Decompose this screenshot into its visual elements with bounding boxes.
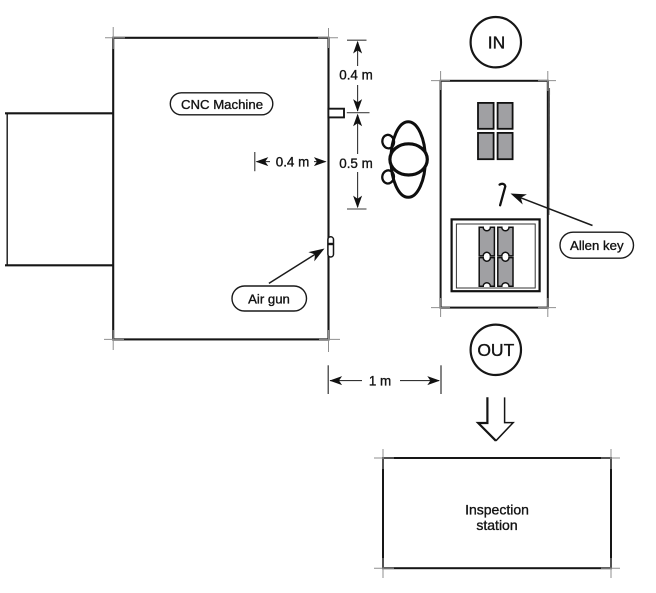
svg-text:1 m: 1 m bbox=[369, 373, 391, 388]
svg-text:station: station bbox=[476, 517, 517, 533]
CNC machine body bbox=[113, 38, 328, 340]
Air gun label bbox=[232, 286, 307, 311]
dimension 0.5 m vertical bbox=[339, 113, 373, 209]
operator (person top view) bbox=[381, 122, 427, 198]
corner ticks CNC bbox=[104, 27, 340, 352]
svg-text:0.4 m: 0.4 m bbox=[339, 68, 373, 83]
machined parts: 4 gray with notches bbox=[479, 227, 513, 286]
left fixture rectangle bbox=[5, 113, 113, 265]
door handle bbox=[328, 109, 344, 118]
svg-text:IN: IN bbox=[488, 32, 506, 52]
svg-text:Air gun: Air gun bbox=[248, 291, 290, 306]
OUT circle bbox=[471, 325, 521, 375]
flow arrow (open block arrow down) bbox=[478, 397, 513, 441]
IN circle bbox=[471, 17, 521, 67]
corner ticks table bbox=[431, 71, 556, 317]
svg-text:Allen key: Allen key bbox=[570, 238, 624, 253]
corner ticks inspection bbox=[374, 449, 620, 578]
inspection station text bbox=[465, 502, 529, 534]
air gun on machine wall bbox=[328, 237, 334, 257]
CNC Machine label bbox=[170, 93, 272, 115]
inspection station bbox=[383, 458, 611, 568]
Allen key label bbox=[560, 232, 634, 258]
dimension 0.4 m horizontal (inside machine) bbox=[255, 152, 327, 171]
dimension 0.4 m vertical (top) bbox=[339, 40, 373, 112]
raw parts: 4 gray blanks bbox=[478, 103, 513, 159]
finished parts tray (double box) bbox=[452, 219, 540, 291]
parts table bbox=[441, 81, 548, 308]
allen key bbox=[500, 184, 506, 205]
svg-text:0.5 m: 0.5 m bbox=[339, 156, 373, 171]
Air gun leader arrow bbox=[269, 249, 325, 284]
svg-text:0.4 m: 0.4 m bbox=[276, 154, 310, 169]
svg-text:CNC Machine: CNC Machine bbox=[181, 97, 263, 112]
svg-text:OUT: OUT bbox=[477, 340, 514, 360]
allen key leader arrow bbox=[511, 194, 593, 226]
svg-text:Inspection: Inspection bbox=[465, 502, 529, 518]
dimension 1 m bbox=[328, 365, 441, 394]
